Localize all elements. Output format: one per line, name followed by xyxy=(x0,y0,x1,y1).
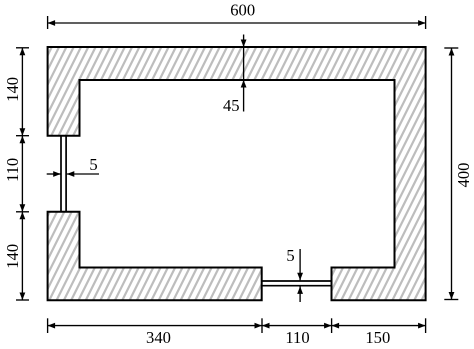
dimension 400 (right) xyxy=(444,48,458,300)
dimension 5 (left web width) xyxy=(47,173,99,175)
dimension 45 (top wall thickness) xyxy=(243,35,245,112)
svg-text:110: 110 xyxy=(3,158,22,182)
svg-text:600: 600 xyxy=(230,1,255,20)
svg-text:45: 45 xyxy=(223,96,240,115)
wall section B (lower-left, bottom-left) xyxy=(48,212,262,300)
dimension 5 (bottom web width) xyxy=(299,249,301,280)
svg-text:340: 340 xyxy=(146,328,171,347)
thin web in left wall xyxy=(61,136,66,212)
bottom chain dimension line xyxy=(48,318,426,333)
svg-text:400: 400 xyxy=(454,163,473,188)
dimension 600 (top) xyxy=(48,16,426,29)
svg-text:140: 140 xyxy=(3,244,22,269)
svg-text:150: 150 xyxy=(365,328,390,347)
wall section A (top, right, upper-left, lower-right) xyxy=(48,47,426,300)
svg-text:5: 5 xyxy=(286,246,294,265)
hatch fill of walls xyxy=(0,38,474,310)
svg-text:140: 140 xyxy=(3,77,22,102)
thin web in bottom wall xyxy=(262,281,332,286)
svg-text:110: 110 xyxy=(285,328,309,347)
left chain arrows xyxy=(20,48,26,56)
left chain dimension line xyxy=(16,48,29,300)
bottom chain arrows xyxy=(48,323,56,329)
svg-text:5: 5 xyxy=(89,155,97,174)
